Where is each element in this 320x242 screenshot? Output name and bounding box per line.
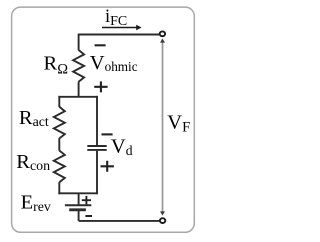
V_F arrowhead up xyxy=(160,39,165,43)
resistor R_con xyxy=(54,151,65,183)
capacitor C (bottom plate) xyxy=(87,149,106,151)
plus sign of V_ohmic xyxy=(94,81,107,92)
minus sign of V_d xyxy=(102,133,113,135)
svg-text:Vd: Vd xyxy=(111,136,133,159)
wire between R_act and R_con xyxy=(58,138,60,151)
svg-text:RΩ: RΩ xyxy=(44,53,69,78)
wire left branch upper stub xyxy=(58,96,60,107)
resistor R_act xyxy=(54,107,65,139)
battery minus sign xyxy=(85,215,92,217)
svg-text:VF: VF xyxy=(167,112,190,136)
wire battery bottom stub xyxy=(78,210,80,221)
parallel block bottom wire xyxy=(58,192,98,194)
frame border xyxy=(12,7,195,232)
wire R_ohm bottom stub xyxy=(78,82,80,97)
V_F arrowhead down xyxy=(160,211,165,215)
battery E_rev (short negative plate) xyxy=(69,208,86,211)
parallel block top wire xyxy=(58,96,98,98)
battery E_rev (long positive plate) xyxy=(65,204,91,206)
current arrow i_FC xyxy=(102,27,137,29)
minus sign of V_ohmic xyxy=(95,44,106,46)
svg-text:Ract: Ract xyxy=(19,107,49,130)
capacitor C (top plate) xyxy=(87,145,106,147)
wire left branch lower stub xyxy=(58,182,60,194)
node terminal bottom (open circle) xyxy=(160,218,165,223)
wire R_ohm top stub xyxy=(78,34,80,51)
wire top (node after R_ohm to positive terminal) xyxy=(79,34,160,36)
wire right branch lower stub xyxy=(96,151,98,194)
svg-text:iFC: iFC xyxy=(105,7,127,29)
svg-text:Vohmic: Vohmic xyxy=(90,52,138,74)
plus sign of V_d xyxy=(101,161,114,172)
resistor R_ohm xyxy=(73,50,84,82)
node terminal top (open circle) xyxy=(160,31,165,36)
wire bottom (to negative terminal) xyxy=(79,220,160,222)
wire battery top stub xyxy=(78,193,80,205)
voltage arrow V_F (line) xyxy=(162,42,164,213)
wire right branch upper stub xyxy=(96,96,98,145)
battery plus sign xyxy=(82,196,91,205)
svg-text:Erev: Erev xyxy=(21,192,51,216)
svg-text:Rcon: Rcon xyxy=(16,151,50,174)
